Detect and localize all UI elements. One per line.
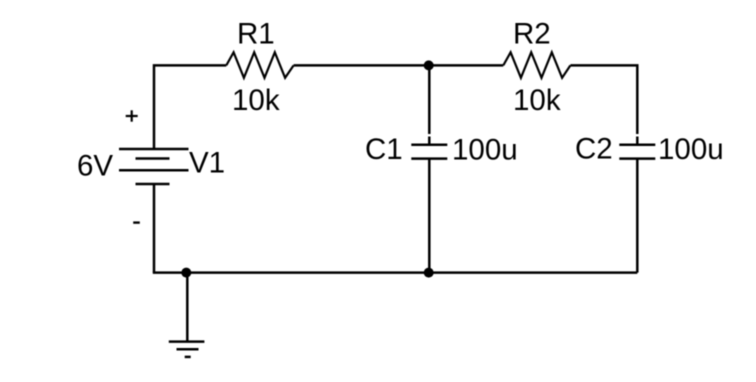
- svg-text:C1: C1: [365, 133, 403, 166]
- svg-text:100u: 100u: [452, 133, 518, 166]
- svg-text:R1: R1: [237, 18, 275, 51]
- svg-text:R2: R2: [513, 18, 551, 51]
- svg-text:10k: 10k: [232, 84, 280, 117]
- svg-text:10k: 10k: [513, 84, 561, 117]
- svg-text:100u: 100u: [658, 133, 724, 166]
- svg-text:C2: C2: [575, 132, 613, 165]
- svg-text:V1: V1: [189, 147, 225, 180]
- svg-text:6V: 6V: [77, 150, 113, 183]
